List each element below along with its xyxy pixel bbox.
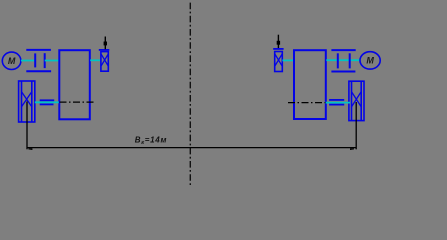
shaft gearbox to brake (left) [90, 59, 101, 61]
gearbox axis centerline (left) [60, 101, 96, 103]
wheel axle extension line (right) [355, 102, 357, 149]
gearbox axis centerline (right) [288, 102, 326, 104]
dimension tick (right) [350, 148, 354, 150]
coupling (left) [26, 50, 51, 71]
wheel axle extension line (left) [26, 102, 28, 150]
wheel coupling sleeve (right) [329, 100, 344, 105]
dimension line Bk [27, 147, 356, 149]
brake T2 (right) [273, 49, 283, 72]
gearbox (left) [59, 50, 90, 119]
shaft gearbox to coupling and motor M2 (right) [326, 59, 360, 61]
wheel K2 (right) [349, 81, 364, 120]
motor M1 (left) [2, 52, 21, 69]
shaft motor M1 to coupling (left) [21, 60, 35, 62]
motor M2 (right) [360, 52, 380, 69]
brake actuation arrow (right) [277, 35, 280, 49]
gearbox (right) [294, 50, 326, 119]
brake actuation arrow (left) [104, 37, 107, 50]
brake T1 (left) [99, 50, 110, 71]
svg-text:M: M [366, 55, 374, 65]
vertical symmetry axis centerline [189, 3, 191, 186]
svg-text:M: M [8, 56, 16, 66]
shaft brake to gearbox (right) [282, 59, 293, 61]
coupling (right) [331, 50, 355, 71]
wheel shaft (right) [326, 102, 351, 104]
shaft coupling to gearbox (left) [45, 60, 59, 62]
wheel K1 (left) [19, 81, 35, 122]
dimension tick (left) [28, 148, 32, 150]
wheel coupling sleeve (left) [40, 100, 55, 104]
wheel shaft (left) [35, 101, 59, 103]
